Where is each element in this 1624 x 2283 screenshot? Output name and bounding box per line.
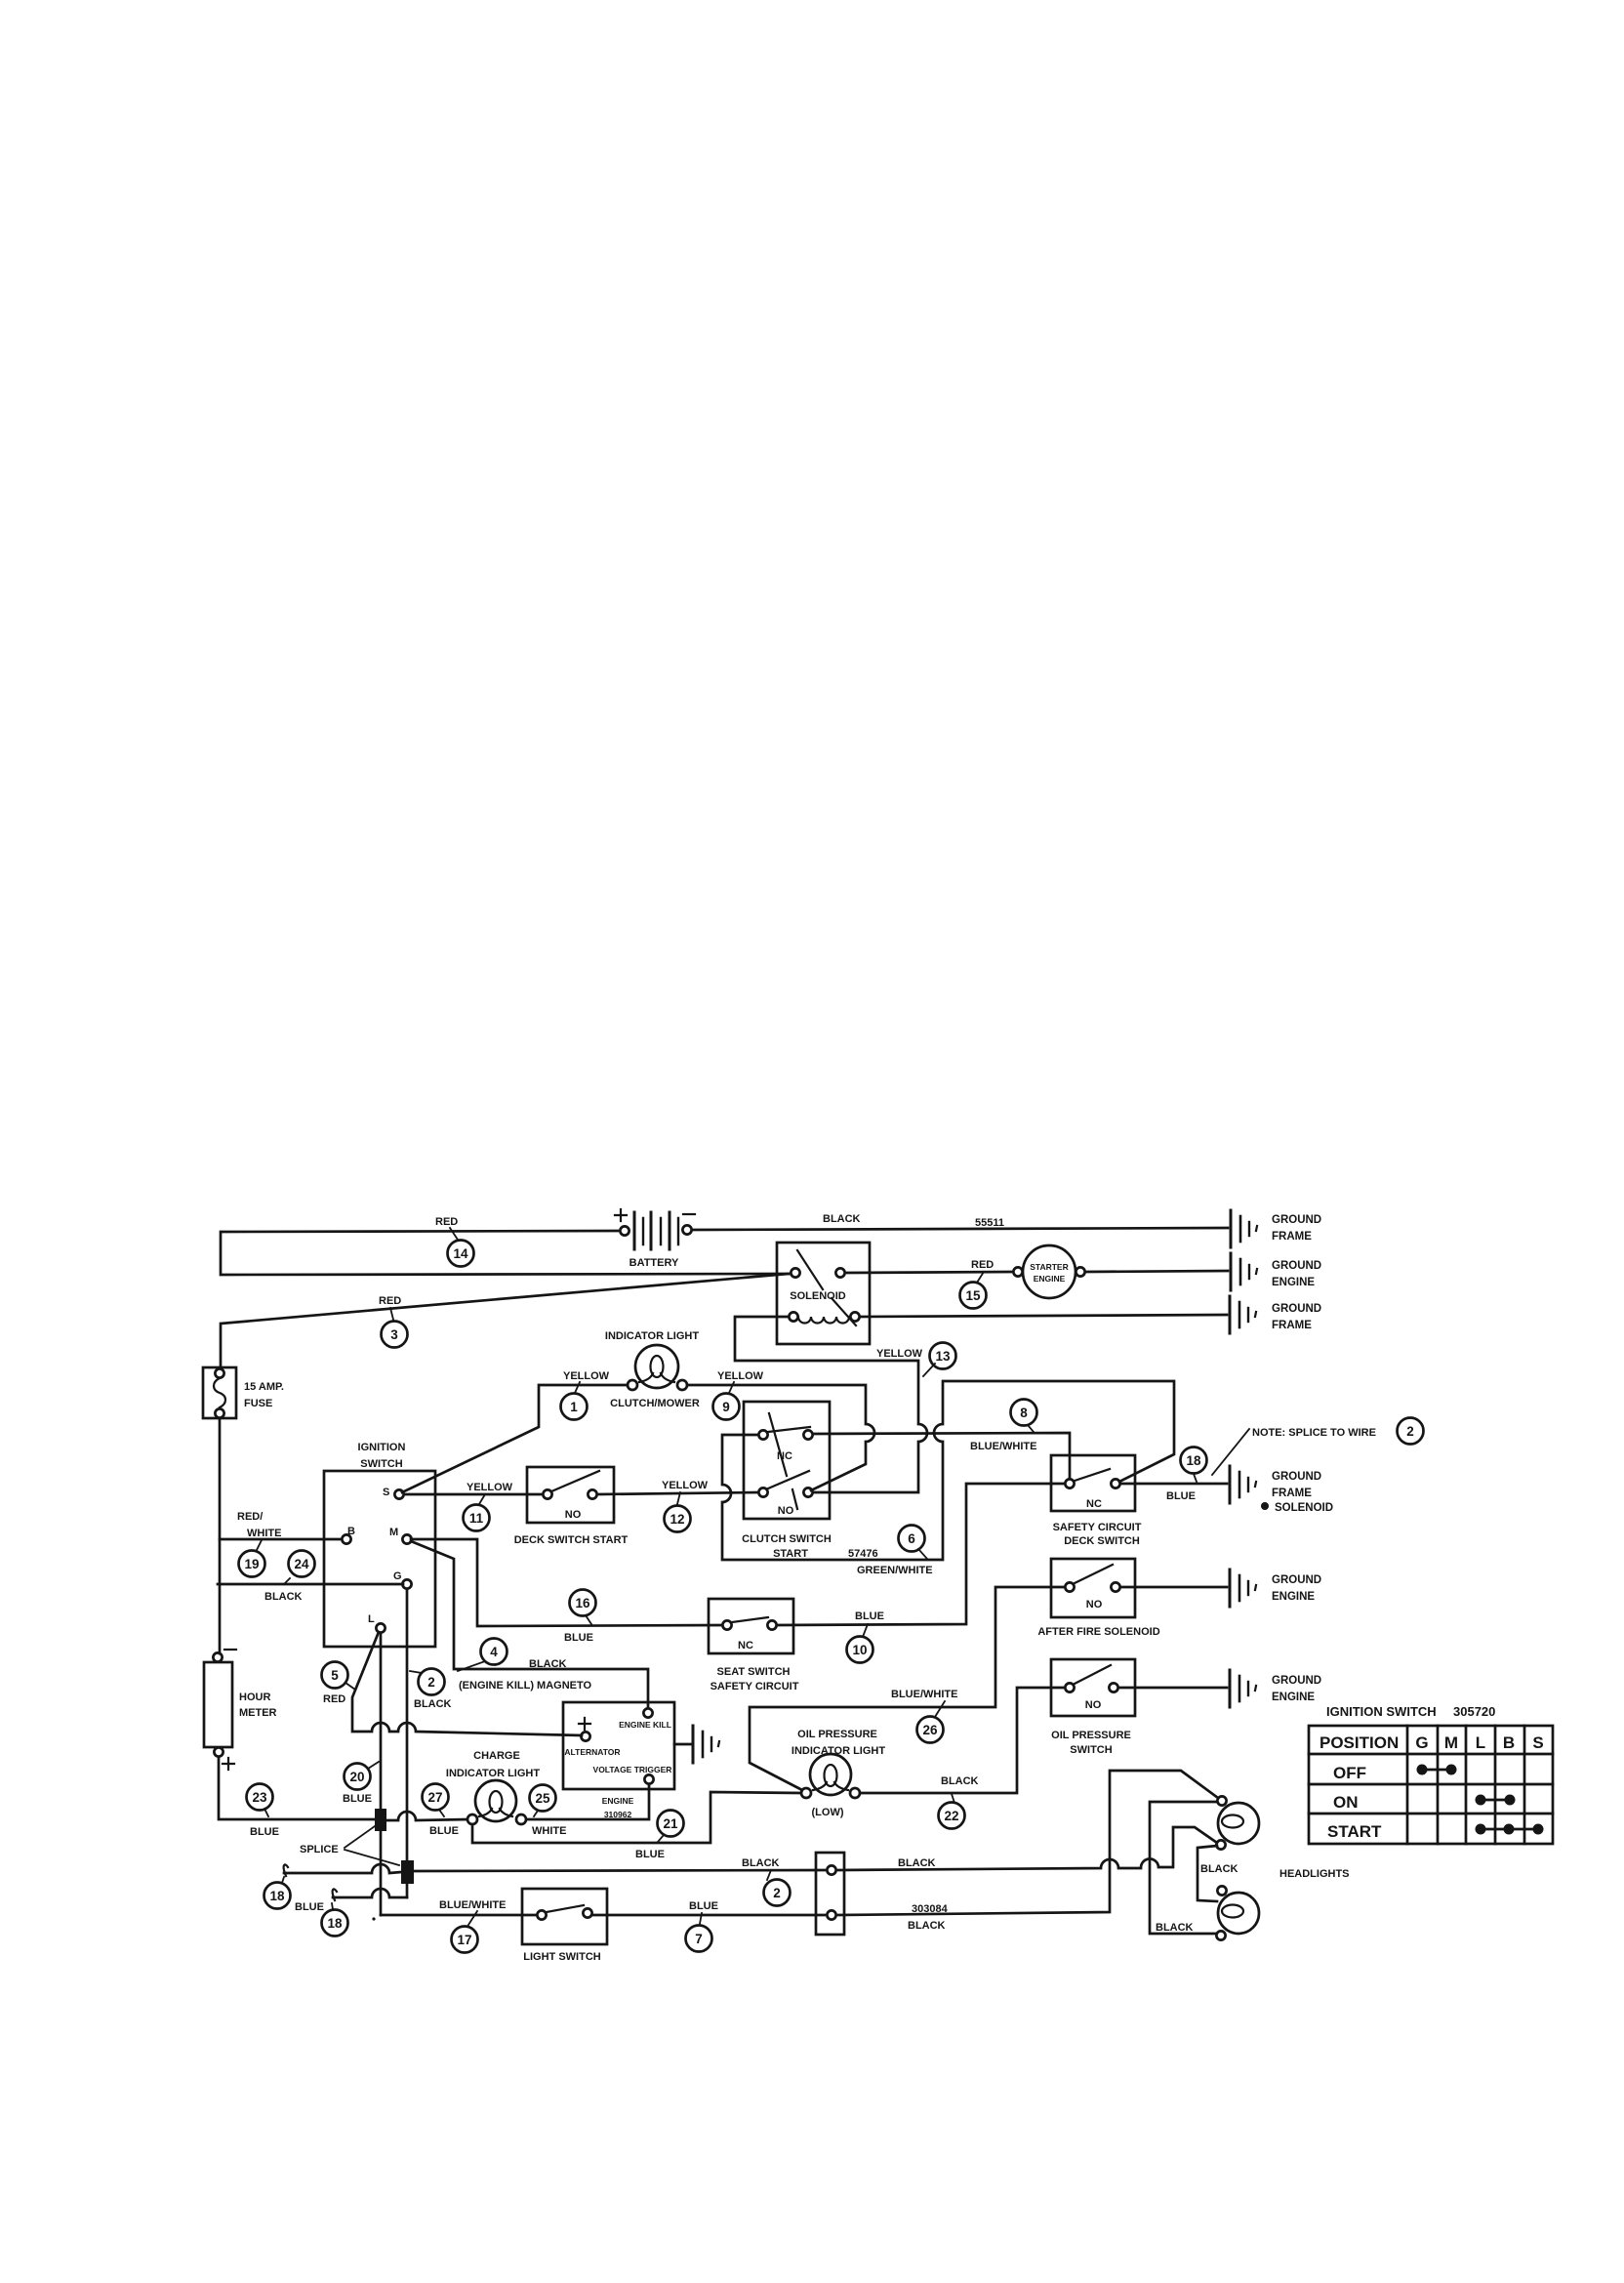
svg-text:NO: NO — [778, 1505, 794, 1517]
label YELLOW 9 — [713, 1370, 764, 1420]
svg-text:BLACK: BLACK — [264, 1591, 303, 1603]
headlight bulb 2 — [1216, 1886, 1259, 1939]
light switch — [522, 1889, 607, 1963]
svg-text:BATTERY: BATTERY — [629, 1257, 679, 1269]
wire YELLOW 11 S to deck switch — [404, 1482, 543, 1531]
svg-text:YELLOW: YELLOW — [717, 1370, 764, 1382]
svg-text:HEADLIGHTS: HEADLIGHTS — [1279, 1868, 1350, 1880]
wire BLUE 18 safety deck switch to ground — [1120, 1447, 1227, 1503]
wire engine to ground — [674, 1743, 691, 1746]
svg-text:BLUE: BLUE — [1166, 1490, 1196, 1502]
wire WHITE 25 charge lamp to voltage trigger — [526, 1784, 649, 1819]
svg-text:20: 20 — [349, 1770, 364, 1784]
SPLICE label — [300, 1826, 399, 1865]
ground engine (oil pressure) — [1230, 1670, 1321, 1707]
svg-text:L: L — [368, 1613, 375, 1625]
svg-text:303084: 303084 — [912, 1903, 949, 1915]
svg-text:AFTER FIRE SOLENOID: AFTER FIRE SOLENOID — [1037, 1626, 1159, 1638]
svg-text:YELLOW: YELLOW — [563, 1370, 610, 1382]
ground engine (magneto) — [693, 1726, 719, 1763]
wire BLUE/WHITE 17 to light switch — [381, 1899, 537, 1953]
ground frame (battery) — [1231, 1210, 1321, 1247]
svg-text:18: 18 — [269, 1889, 285, 1903]
svg-text:FRAME: FRAME — [1272, 1488, 1312, 1499]
svg-text:ENGINE: ENGINE — [1272, 1277, 1315, 1288]
wire RED 15 solenoid to starter — [845, 1259, 1013, 1309]
ground frame solenoid (safety deck) — [1230, 1466, 1333, 1514]
svg-text:M: M — [389, 1527, 398, 1538]
svg-text:22: 22 — [944, 1809, 958, 1823]
svg-text:(LOW): (LOW) — [812, 1807, 844, 1818]
svg-text:SWITCH: SWITCH — [1070, 1744, 1112, 1756]
svg-text:WHITE: WHITE — [532, 1825, 566, 1837]
svg-text:BLUE: BLUE — [635, 1849, 665, 1860]
svg-text:YELLOW: YELLOW — [662, 1480, 709, 1491]
wire BLUE/WHITE 26 after fire solenoid to oil lamp — [750, 1587, 1065, 1790]
wire BLACK 4 ignition M to magneto engine kill — [411, 1541, 648, 1708]
svg-text:305720: 305720 — [1453, 1704, 1495, 1719]
svg-text:17: 17 — [457, 1933, 471, 1947]
wire BLUE 23 hour meter to splice — [219, 1757, 375, 1838]
svg-text:18: 18 — [327, 1916, 343, 1931]
svg-text:310962: 310962 — [604, 1810, 632, 1819]
wire BLACK 24 bus to ignition G — [218, 1584, 403, 1603]
svg-text:BLUE/WHITE: BLUE/WHITE — [970, 1441, 1036, 1452]
indicator light CLUTCH/MOWER — [605, 1330, 700, 1409]
wire YELLOW 12 deck switch to clutch switch — [597, 1480, 758, 1532]
wire headlight outer link — [1150, 1802, 1217, 1934]
note splice to wire 2 — [1212, 1418, 1424, 1476]
wire RED/WHITE 19 fuse bus to ignition B — [220, 1511, 342, 1577]
svg-text:27: 27 — [427, 1790, 442, 1805]
svg-text:CLUTCH SWITCH: CLUTCH SWITCH — [742, 1533, 832, 1545]
svg-text:NC: NC — [738, 1640, 753, 1651]
svg-text:6: 6 — [908, 1531, 915, 1546]
svg-text:M: M — [1444, 1733, 1458, 1752]
ignition switch — [324, 1442, 435, 1647]
svg-text:DECK SWITCH: DECK SWITCH — [1064, 1535, 1140, 1547]
wire YELLOW 9 lamp to clutch switch — [687, 1385, 874, 1490]
wire GREEN/WHITE 6 clutch loop to safety deck switch — [722, 1381, 1174, 1576]
wire BLUE 10 safety deck switch to seat switch — [777, 1484, 1065, 1663]
svg-text:RED: RED — [971, 1259, 994, 1271]
svg-text:2: 2 — [427, 1675, 435, 1690]
svg-text:15 AMP.: 15 AMP. — [244, 1381, 284, 1393]
svg-text:BLACK: BLACK — [529, 1658, 567, 1670]
svg-text:RED/: RED/ — [237, 1511, 263, 1523]
svg-text:ENGINE: ENGINE — [1272, 1591, 1315, 1603]
svg-text:ON: ON — [1333, 1793, 1359, 1812]
svg-text:NC: NC — [1086, 1498, 1102, 1510]
svg-text:26: 26 — [922, 1723, 938, 1737]
wire splice1 to light switch vertical — [380, 1831, 383, 1915]
svg-text:WHITE: WHITE — [247, 1528, 281, 1539]
svg-text:14: 14 — [453, 1246, 468, 1261]
splice block 2 — [401, 1860, 414, 1884]
starter engine — [1013, 1245, 1084, 1298]
svg-text:SAFETY CIRCUIT: SAFETY CIRCUIT — [710, 1681, 799, 1692]
svg-text:SAFETY CIRCUIT: SAFETY CIRCUIT — [1053, 1522, 1142, 1533]
safety circuit deck switch — [1051, 1455, 1142, 1547]
svg-text:4: 4 — [490, 1645, 498, 1659]
svg-text:7: 7 — [695, 1932, 703, 1946]
wire headlight inner link BLACK — [1156, 1846, 1238, 1934]
svg-text:VOLTAGE TRIGGER: VOLTAGE TRIGGER — [593, 1765, 672, 1774]
svg-text:BLACK: BLACK — [898, 1857, 936, 1869]
svg-text:CHARGE: CHARGE — [473, 1750, 520, 1762]
svg-text:19: 19 — [244, 1557, 259, 1571]
label 24 for BLACK wire — [285, 1551, 315, 1584]
wire starter to ground engine — [1085, 1271, 1228, 1272]
svg-text:5: 5 — [331, 1668, 339, 1683]
svg-text:3: 3 — [390, 1327, 398, 1342]
svg-text:BLACK: BLACK — [414, 1698, 452, 1710]
svg-text:BLUE: BLUE — [564, 1632, 593, 1644]
wire end dot — [372, 1917, 375, 1920]
svg-text:25: 25 — [535, 1791, 550, 1806]
wire oil pressure switch to ground — [1118, 1687, 1227, 1690]
svg-text:S: S — [383, 1487, 389, 1498]
svg-text:NO: NO — [565, 1509, 582, 1521]
svg-text:BLACK: BLACK — [908, 1920, 946, 1932]
svg-text:8: 8 — [1020, 1406, 1028, 1420]
svg-text:BLACK: BLACK — [742, 1857, 780, 1869]
svg-text:BLUE: BLUE — [429, 1825, 459, 1837]
svg-text:METER: METER — [239, 1707, 277, 1719]
oil pressure indicator light — [792, 1729, 885, 1818]
svg-text:GROUND: GROUND — [1272, 1303, 1321, 1315]
svg-text:START: START — [1327, 1822, 1382, 1841]
svg-text:B: B — [1503, 1733, 1515, 1752]
svg-text:ENGINE: ENGINE — [1034, 1274, 1066, 1284]
svg-text:18: 18 — [1186, 1453, 1201, 1468]
wire BLUE 21 charge lamp to oil lamp — [472, 1792, 801, 1860]
svg-text:15: 15 — [965, 1288, 981, 1303]
wire left bus fuse to hour meter — [219, 1418, 222, 1653]
ignition switch table — [1309, 1704, 1553, 1844]
svg-text:21: 21 — [663, 1816, 678, 1831]
svg-text:YELLOW: YELLOW — [467, 1482, 513, 1493]
svg-text:13: 13 — [935, 1349, 951, 1364]
svg-text:NO: NO — [1085, 1699, 1102, 1711]
svg-text:ENGINE: ENGINE — [1272, 1692, 1315, 1703]
svg-text:BLUE/WHITE: BLUE/WHITE — [439, 1899, 506, 1911]
svg-text:NOTE: SPLICE TO WIRE: NOTE: SPLICE TO WIRE — [1252, 1427, 1376, 1439]
svg-text:BLACK: BLACK — [823, 1213, 861, 1225]
hour meter — [204, 1650, 277, 1770]
svg-text:YELLOW: YELLOW — [876, 1348, 923, 1360]
svg-text:INDICATOR LIGHT: INDICATOR LIGHT — [446, 1768, 540, 1779]
engine box — [563, 1702, 674, 1819]
svg-text:2: 2 — [773, 1886, 781, 1900]
svg-text:DECK SWITCH START: DECK SWITCH START — [514, 1534, 629, 1546]
svg-text:16: 16 — [575, 1596, 590, 1610]
svg-text:IGNITION SWITCH: IGNITION SWITCH — [1326, 1704, 1437, 1719]
clutch switch start — [742, 1402, 877, 1560]
wire RED 14 battery positive feed — [221, 1216, 789, 1275]
svg-text:SEAT SWITCH: SEAT SWITCH — [717, 1666, 791, 1678]
svg-text:GROUND: GROUND — [1272, 1675, 1321, 1687]
deck switch start — [514, 1467, 629, 1546]
ground engine (after fire) — [1230, 1570, 1321, 1607]
wire BLACK 55511 battery to ground frame — [692, 1213, 1228, 1230]
wire ignition G vertical to splice 2 — [406, 1589, 409, 1860]
svg-text:BLACK: BLACK — [1156, 1922, 1194, 1934]
svg-text:(ENGINE KILL) MAGNETO: (ENGINE KILL) MAGNETO — [459, 1680, 592, 1692]
svg-text:NC: NC — [777, 1450, 792, 1462]
svg-text:BLUE: BLUE — [295, 1901, 324, 1913]
label BLACK 2 for G wire — [410, 1669, 452, 1711]
wire BLACK 22 oil lamp to oil pressure switch — [860, 1688, 1065, 1829]
svg-text:G: G — [393, 1570, 402, 1582]
fuse 15 AMP — [203, 1367, 284, 1418]
svg-text:SOLENOID: SOLENOID — [790, 1290, 846, 1302]
svg-text:FRAME: FRAME — [1272, 1320, 1312, 1331]
svg-text:SOLENOID: SOLENOID — [1275, 1502, 1333, 1514]
svg-text:BLUE: BLUE — [343, 1793, 372, 1805]
svg-text:INDICATOR LIGHT: INDICATOR LIGHT — [605, 1330, 699, 1342]
wire BLUE/WHITE 8 clutch NC to safety deck switch — [813, 1400, 1070, 1480]
wire RED 5 ignition L to alternator — [322, 1632, 583, 1735]
label BLUE 20 — [343, 1762, 379, 1805]
svg-text:START: START — [773, 1548, 808, 1560]
svg-text:IGNITION: IGNITION — [358, 1442, 406, 1453]
svg-text:9: 9 — [722, 1400, 730, 1414]
svg-text:FRAME: FRAME — [1272, 1231, 1312, 1243]
svg-text:23: 23 — [252, 1790, 267, 1805]
svg-text:GREEN/WHITE: GREEN/WHITE — [857, 1565, 933, 1576]
headlight connector — [816, 1853, 844, 1935]
svg-text:12: 12 — [670, 1512, 684, 1527]
wire BLUE 18a to splice 2 — [264, 1864, 402, 1913]
svg-text:ALTERNATOR: ALTERNATOR — [564, 1747, 620, 1757]
svg-text:ENGINE KILL: ENGINE KILL — [619, 1720, 671, 1730]
svg-text:POSITION: POSITION — [1319, 1733, 1399, 1752]
svg-text:INDICATOR LIGHT: INDICATOR LIGHT — [792, 1745, 885, 1757]
svg-text:RED: RED — [435, 1216, 458, 1228]
svg-text:FUSE: FUSE — [244, 1398, 272, 1409]
svg-text:GROUND: GROUND — [1272, 1574, 1321, 1586]
svg-text:ENGINE: ENGINE — [602, 1796, 634, 1806]
charge indicator light — [446, 1750, 540, 1824]
ground frame (solenoid coil) — [1230, 1296, 1321, 1333]
svg-text:BLUE: BLUE — [855, 1610, 884, 1622]
wire YELLOW 1 lamp to ignition S — [402, 1385, 628, 1492]
svg-text:57476: 57476 — [848, 1548, 878, 1560]
wire after fire to ground — [1120, 1586, 1227, 1589]
svg-text:11: 11 — [469, 1511, 484, 1526]
wire BLUE 18b to splice 2 tail — [322, 1889, 408, 1936]
svg-text:LIGHT SWITCH: LIGHT SWITCH — [523, 1951, 600, 1963]
svg-text:STARTER: STARTER — [1030, 1262, 1069, 1272]
svg-text:L: L — [1476, 1733, 1485, 1752]
wire ignition L vertical to splice 1 — [380, 1633, 383, 1809]
svg-text:24: 24 — [294, 1557, 309, 1571]
wire BLUE 16 ignition M to seat switch — [411, 1539, 722, 1644]
svg-text:SWITCH: SWITCH — [360, 1458, 402, 1470]
svg-text:GROUND: GROUND — [1272, 1471, 1321, 1483]
svg-text:BLUE: BLUE — [250, 1826, 279, 1838]
wire solenoid coil to ground frame — [860, 1315, 1227, 1317]
wire splice2 tail — [406, 1884, 409, 1897]
label WHITE 25 — [530, 1785, 567, 1838]
svg-text:BLUE/WHITE: BLUE/WHITE — [891, 1689, 957, 1700]
after fire solenoid — [1037, 1559, 1159, 1638]
svg-text:OFF: OFF — [1333, 1764, 1366, 1782]
svg-text:RED: RED — [323, 1693, 345, 1705]
solenoid — [777, 1243, 870, 1344]
wire BLACK 2 splice to headlights — [414, 1827, 1217, 1906]
svg-text:RED: RED — [379, 1295, 401, 1307]
headlight bulb 1 — [1216, 1796, 1259, 1849]
svg-text:CLUTCH/MOWER: CLUTCH/MOWER — [610, 1398, 700, 1409]
svg-text:1: 1 — [570, 1400, 578, 1414]
svg-text:OIL PRESSURE: OIL PRESSURE — [797, 1729, 877, 1740]
svg-text:GROUND: GROUND — [1272, 1260, 1321, 1272]
svg-text:S: S — [1532, 1733, 1543, 1752]
svg-text:NO: NO — [1086, 1599, 1103, 1610]
seat switch safety circuit — [709, 1599, 799, 1692]
svg-text:GROUND: GROUND — [1272, 1214, 1321, 1226]
svg-text:BLACK: BLACK — [941, 1775, 979, 1787]
svg-text:10: 10 — [852, 1643, 867, 1657]
svg-text:OIL PRESSURE: OIL PRESSURE — [1051, 1730, 1131, 1741]
oil pressure switch — [1051, 1659, 1135, 1756]
label YELLOW 1 — [561, 1370, 610, 1420]
wire YELLOW 13 solenoid coil to clutch switch — [735, 1317, 956, 1492]
svg-text:SPLICE: SPLICE — [300, 1844, 339, 1855]
svg-text:2: 2 — [1406, 1424, 1414, 1439]
battery — [615, 1209, 695, 1269]
ground engine (starter) — [1231, 1253, 1321, 1290]
svg-text:G: G — [1415, 1733, 1428, 1752]
svg-text:55511: 55511 — [975, 1217, 1004, 1229]
svg-text:BLUE: BLUE — [689, 1900, 718, 1912]
wire BLUE 27 splice to charge indicator light — [386, 1784, 467, 1838]
splice block 1 — [375, 1809, 386, 1831]
wire BLUE 7 303084 light switch to headlights — [592, 1771, 1218, 1952]
svg-text:HOUR: HOUR — [239, 1692, 270, 1703]
svg-text:BLACK: BLACK — [1200, 1863, 1238, 1875]
wire RED 3 fuse to solenoid — [221, 1274, 789, 1367]
